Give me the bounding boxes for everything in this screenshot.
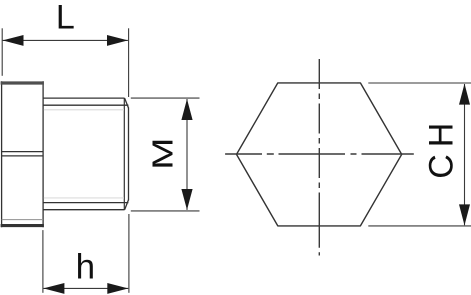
svg-text:L: L [56, 0, 75, 36]
svg-text:h: h [76, 248, 95, 287]
svg-text:M: M [147, 138, 179, 170]
svg-text:CH: CH [423, 116, 461, 179]
